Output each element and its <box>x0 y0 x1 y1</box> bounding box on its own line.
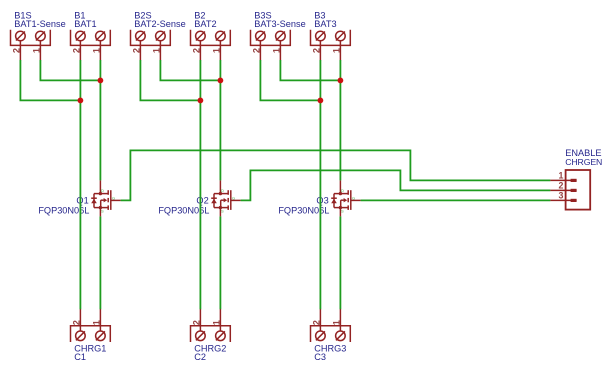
svg-text:G: G <box>112 196 115 201</box>
svg-text:FQP30N06L: FQP30N06L <box>278 206 329 216</box>
junction node B1.1 <box>98 78 104 84</box>
svg-text:D: D <box>221 188 224 193</box>
svg-text:1: 1 <box>151 48 161 53</box>
wire Q1 source down to CHRG1.1 <box>99 216 101 309</box>
svg-text:D: D <box>101 188 104 193</box>
connector X1 (B1) <box>71 30 111 61</box>
svg-text:BAT2-Sense: BAT2-Sense <box>134 19 185 29</box>
svg-text:2: 2 <box>311 320 321 325</box>
connector X1S (B1S) <box>11 30 51 61</box>
svg-text:C3: C3 <box>314 352 326 362</box>
svg-text:1: 1 <box>211 320 221 325</box>
svg-text:1: 1 <box>331 48 341 53</box>
wire Q2 source down to CHRG2.1 <box>219 216 221 309</box>
connector JP1 (ENABLE / CHRGEN header) <box>550 170 590 210</box>
transistor Q2 (FQP30N06L) <box>211 180 240 216</box>
wire B3.2 down to CHRG3.2 <box>319 60 321 309</box>
svg-text:C2: C2 <box>194 352 206 362</box>
svg-text:2: 2 <box>311 48 321 53</box>
wire B1.2 down to CHRG1.2 <box>79 60 81 309</box>
svg-text:Q2: Q2 <box>196 196 208 206</box>
connector X3 (B3) <box>311 30 351 61</box>
wire B2S.1 to B2.1 net <box>160 60 220 80</box>
junction node B1.2 <box>78 98 84 104</box>
svg-text:C1: C1 <box>74 352 86 362</box>
svg-text:2: 2 <box>71 48 81 53</box>
connector XC1 (CHRG1) <box>71 309 111 342</box>
connector X2 (B2) <box>191 30 231 61</box>
svg-text:Q3: Q3 <box>316 196 328 206</box>
connector XC3 (CHRG3) <box>311 309 351 342</box>
wire Q3 gate to CHRGEN pin 3 <box>361 199 551 201</box>
svg-text:BAT2: BAT2 <box>194 19 216 29</box>
svg-text:2: 2 <box>71 320 81 325</box>
svg-text:D: D <box>341 188 344 193</box>
svg-text:S: S <box>221 208 224 213</box>
wire B1S.1 to B1.1 net <box>40 60 100 80</box>
svg-text:1: 1 <box>211 48 221 53</box>
svg-text:G: G <box>232 196 235 201</box>
junction node B3.2 <box>318 98 324 104</box>
wire Q1 gate to CHRGEN pin 1 <box>121 150 551 200</box>
transistor Q3 (FQP30N06L) <box>331 180 360 216</box>
wire B3S.2 to B3.2 net <box>260 60 320 100</box>
svg-text:1: 1 <box>331 320 341 325</box>
wire Q2 gate to CHRGEN pin 2 <box>241 170 551 200</box>
svg-text:BAT1: BAT1 <box>74 19 96 29</box>
svg-text:FQP30N06L: FQP30N06L <box>158 206 209 216</box>
svg-text:2: 2 <box>251 48 261 53</box>
wire B2.2 down to CHRG2.2 <box>199 60 201 309</box>
svg-text:2: 2 <box>191 320 201 325</box>
svg-text:2: 2 <box>558 181 563 191</box>
wire Q3 source down to CHRG3.1 <box>339 216 341 309</box>
svg-text:BAT3: BAT3 <box>314 19 336 29</box>
junction node B2.2 <box>198 98 204 104</box>
svg-text:3: 3 <box>558 191 563 201</box>
wire B2.1 down to Q2 drain <box>219 60 221 180</box>
wire B2S.2 to B2.2 net <box>140 60 200 100</box>
wire B3.1 down to Q3 drain <box>339 60 341 180</box>
junction node B2.1 <box>218 78 224 84</box>
svg-text:1: 1 <box>558 171 563 181</box>
connector X3S (B3S) <box>251 30 291 61</box>
junction node B3.1 <box>338 78 344 84</box>
svg-text:2: 2 <box>131 48 141 53</box>
svg-text:G: G <box>352 196 355 201</box>
wire B3S.1 to B3.1 net <box>280 60 340 80</box>
svg-text:FQP30N06L: FQP30N06L <box>38 206 89 216</box>
svg-text:CHRGEN: CHRGEN <box>565 157 602 167</box>
svg-text:BAT1-Sense: BAT1-Sense <box>14 19 65 29</box>
svg-text:S: S <box>101 208 104 213</box>
svg-text:1: 1 <box>91 320 101 325</box>
connector X2S (B2S) <box>131 30 171 61</box>
svg-text:2: 2 <box>191 48 201 53</box>
connector XC2 (CHRG2) <box>191 309 231 342</box>
svg-text:1: 1 <box>91 48 101 53</box>
transistor Q1 (FQP30N06L) <box>91 180 120 216</box>
svg-text:Q1: Q1 <box>76 196 88 206</box>
svg-text:1: 1 <box>271 48 281 53</box>
svg-text:1: 1 <box>31 48 41 53</box>
svg-text:S: S <box>341 208 344 213</box>
svg-text:BAT3-Sense: BAT3-Sense <box>254 19 305 29</box>
wire B1S.2 to B1.2 net <box>20 60 80 100</box>
wire B1.1 down to Q1 drain <box>99 60 101 180</box>
svg-text:2: 2 <box>11 48 21 53</box>
